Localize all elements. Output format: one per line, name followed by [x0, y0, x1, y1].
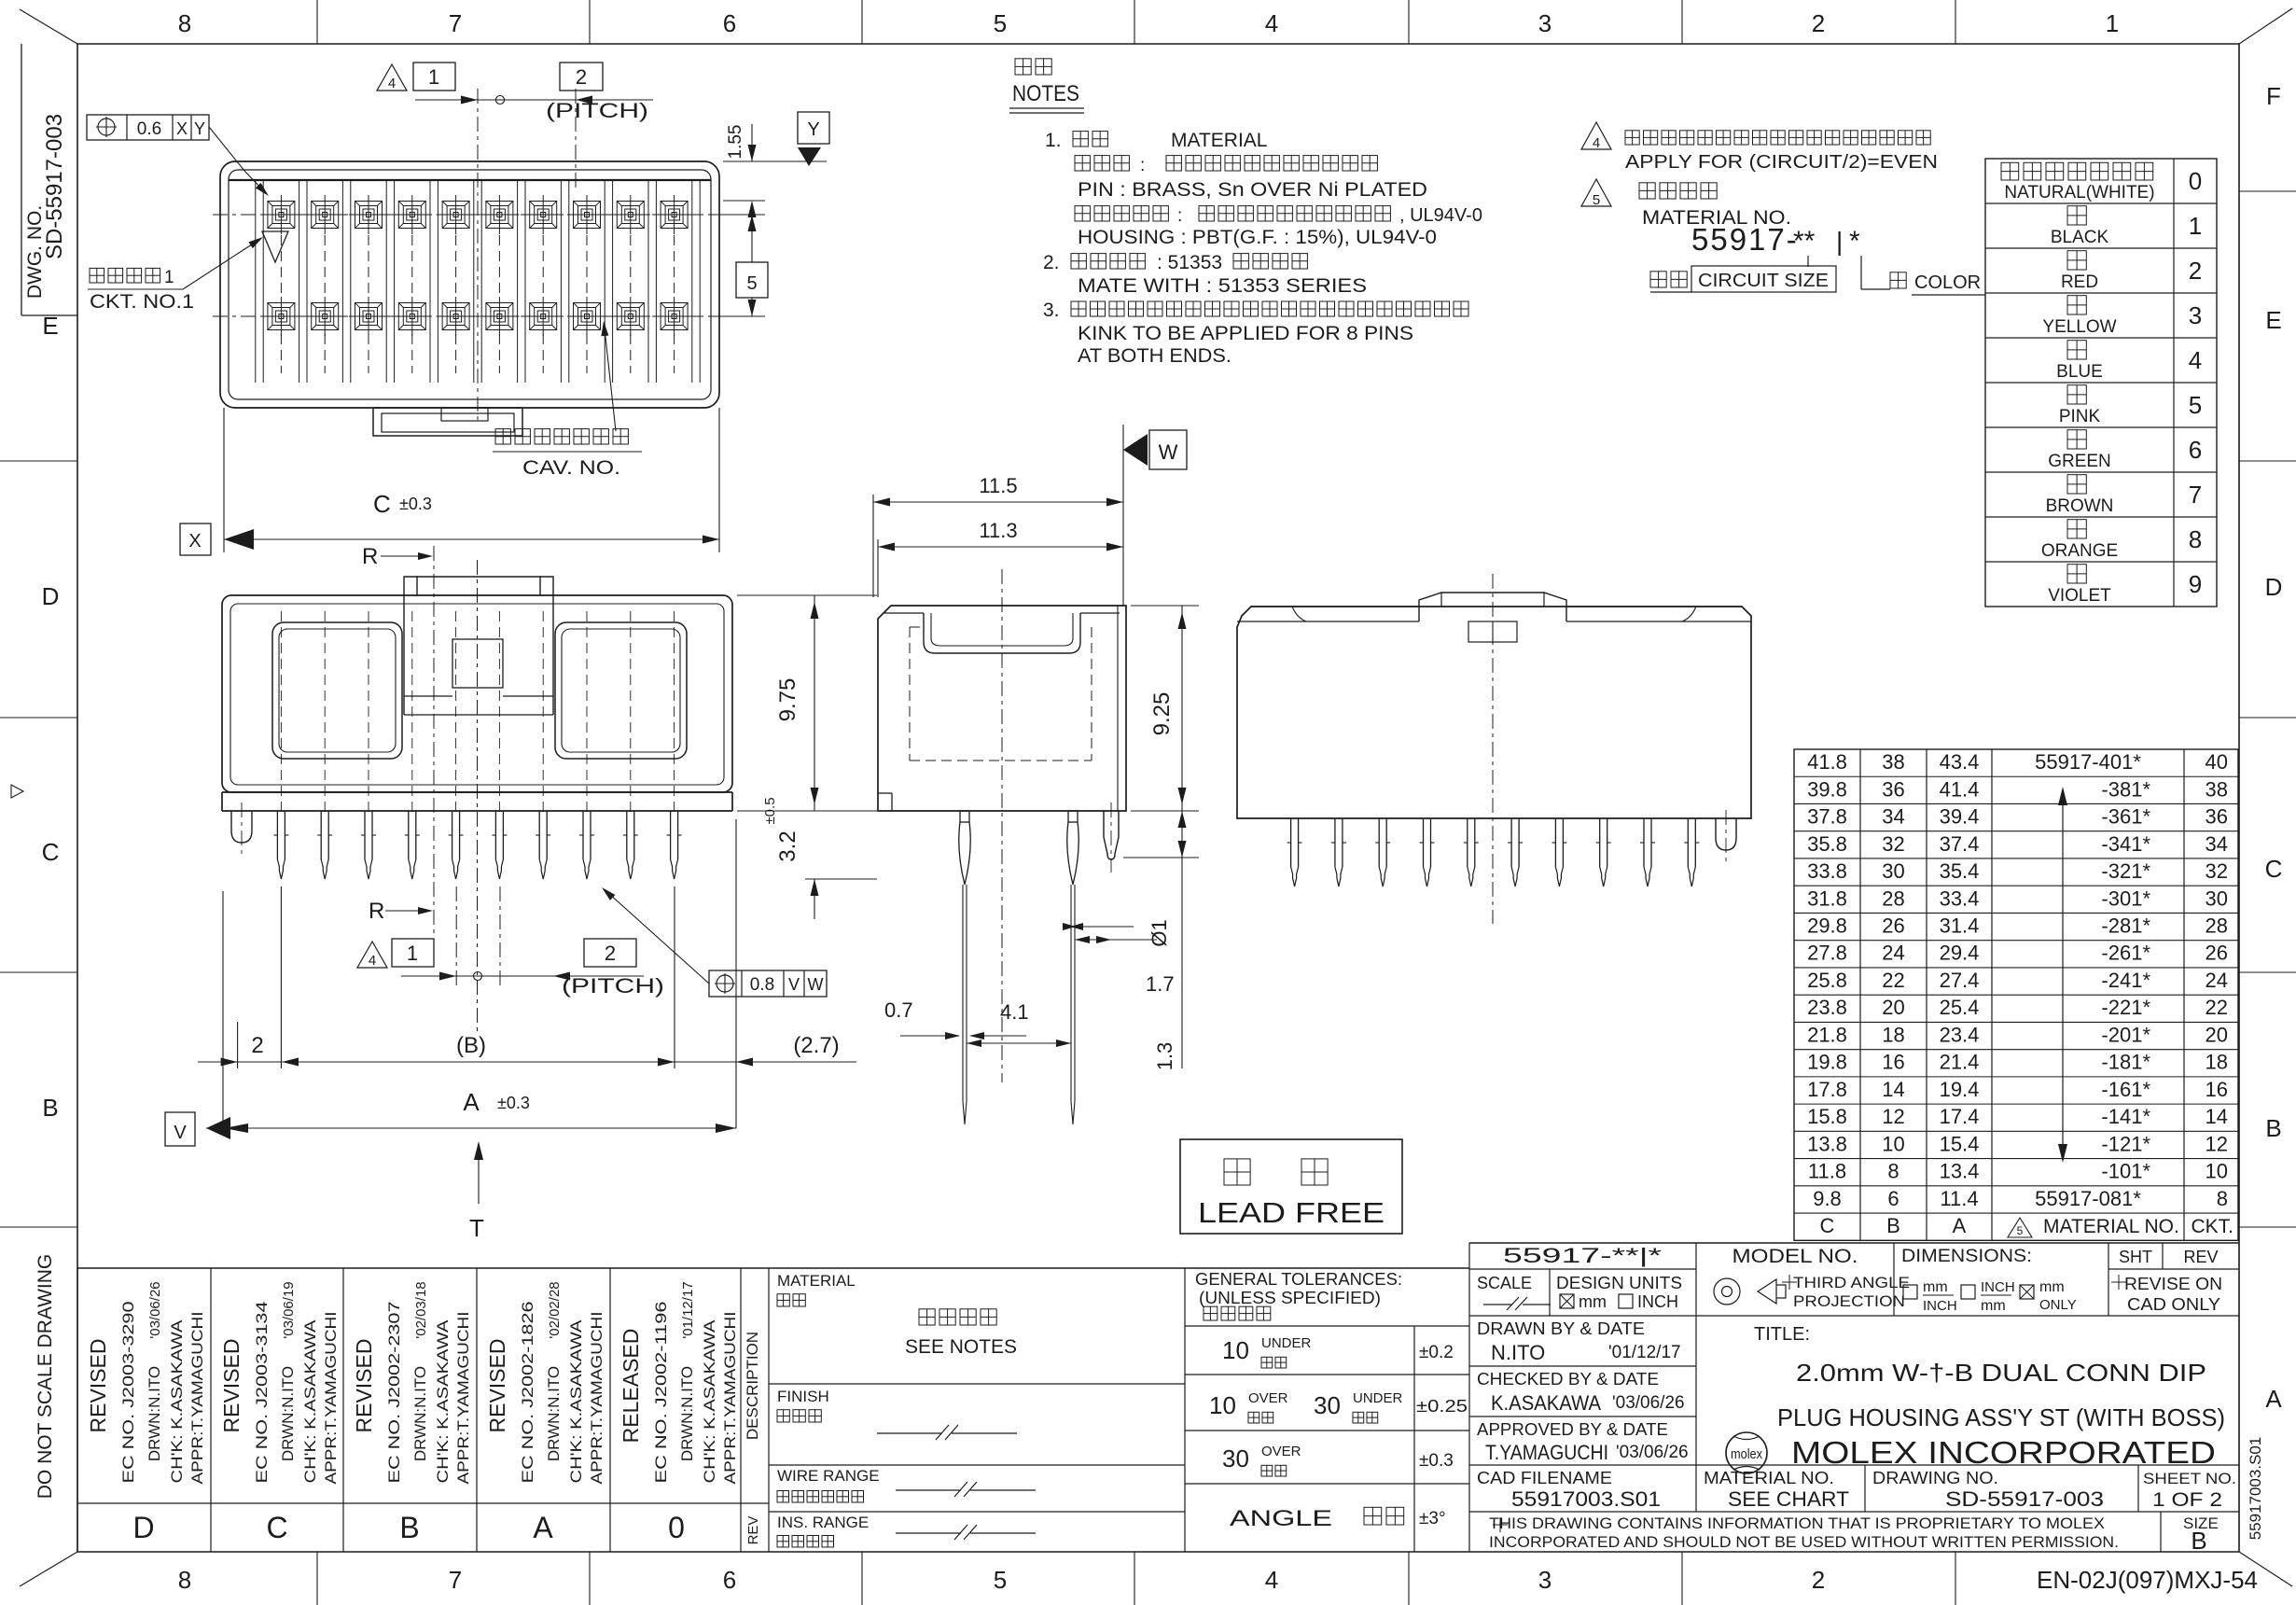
svg-text:16: 16	[1882, 1051, 1904, 1074]
top view connector body	[220, 161, 719, 408]
svg-text:33.4: 33.4	[1940, 886, 1980, 910]
svg-text:27.8: 27.8	[1807, 942, 1847, 965]
svg-text:23.8: 23.8	[1807, 996, 1847, 1019]
svg-text:CKT. NO.1: CKT. NO.1	[90, 291, 194, 313]
svg-text:30: 30	[1222, 1444, 1249, 1472]
color label	[1890, 272, 1906, 288]
svg-text:INS. RANGE: INS. RANGE	[777, 1514, 869, 1531]
svg-text:32: 32	[2206, 859, 2228, 883]
svg-text:REVISED: REVISED	[219, 1339, 244, 1433]
svg-text:41.4: 41.4	[1940, 777, 1980, 801]
svg-text:CH'K: K.ASAKAWA: CH'K: K.ASAKAWA	[567, 1319, 585, 1484]
svg-text:SHT: SHT	[2119, 1248, 2152, 1266]
svg-text:PINK: PINK	[2059, 407, 2101, 426]
svg-text:A: A	[1953, 1214, 1967, 1237]
svg-text:C: C	[42, 838, 60, 866]
svg-text:DRWN:N.ITO: DRWN:N.ITO	[411, 1366, 429, 1461]
svg-text:36: 36	[1882, 777, 1904, 801]
front view dim A ±0.3	[206, 1127, 736, 1129]
svg-text:28: 28	[2206, 914, 2228, 937]
svg-text:55917003.S01: 55917003.S01	[2247, 1437, 2264, 1541]
svg-text:BROWN: BROWN	[2046, 496, 2114, 516]
svg-text:3.: 3.	[1043, 300, 1060, 321]
zone ticks top/bottom	[316, 0, 318, 44]
svg-text:'01/12/17: '01/12/17	[1608, 1343, 1681, 1362]
svg-text:REV: REV	[745, 1516, 761, 1545]
svg-text:'02/02/28: '02/02/28	[547, 1281, 563, 1338]
svg-text:2: 2	[605, 942, 616, 965]
svg-text:±3°: ±3°	[1419, 1509, 1446, 1528]
top view dim: pitch boxes	[377, 64, 407, 91]
circuit size box	[1650, 272, 1687, 287]
svg-text:2: 2	[1812, 1566, 1825, 1594]
svg-text:4: 4	[1593, 135, 1600, 151]
svg-text:mm: mm	[1579, 1292, 1607, 1311]
side view W datum	[1149, 430, 1187, 469]
svg-text:5: 5	[994, 9, 1007, 37]
svg-text:C: C	[2265, 855, 2283, 883]
svg-text:T.YAMAGUCHI: T.YAMAGUCHI	[1485, 1441, 1608, 1464]
svg-text:22: 22	[1882, 969, 1904, 992]
svg-text:'03/06/19: '03/06/19	[281, 1281, 297, 1338]
svg-text:13.8: 13.8	[1807, 1132, 1847, 1155]
svg-text:KINK TO BE APPLIED FOR 8 PINS: KINK TO BE APPLIED FOR 8 PINS	[1078, 323, 1413, 344]
svg-text:17.8: 17.8	[1807, 1078, 1847, 1101]
svg-text:8: 8	[1887, 1160, 1899, 1183]
zone ticks left/right	[0, 460, 77, 462]
note triangle 4	[1581, 122, 1611, 149]
svg-text::: :	[1177, 206, 1182, 226]
svg-text:29.4: 29.4	[1940, 942, 1980, 965]
svg-text:-161*: -161*	[2101, 1078, 2150, 1101]
svg-text:REV: REV	[2183, 1248, 2218, 1266]
svg-text:APPR:T.YAMAGUCHI: APPR:T.YAMAGUCHI	[188, 1312, 206, 1485]
top view bottom boss	[373, 408, 522, 436]
svg-text:: 51353: : 51353	[1157, 252, 1222, 273]
svg-text:APPR:T.YAMAGUCHI: APPR:T.YAMAGUCHI	[322, 1312, 340, 1485]
svg-text:14: 14	[1882, 1078, 1904, 1101]
front view center latch tower	[404, 577, 417, 595]
svg-text:11.3: 11.3	[979, 519, 1017, 542]
front view pitch dim bottom	[357, 942, 387, 968]
svg-text:DESIGN UNITS: DESIGN UNITS	[1556, 1274, 1682, 1292]
svg-text:APPROVED BY & DATE: APPROVED BY & DATE	[1477, 1420, 1668, 1439]
svg-text:10: 10	[2206, 1160, 2228, 1183]
svg-text:INCORPORATED AND SHOULD NOT BE: INCORPORATED AND SHOULD NOT BE USED WITH…	[1489, 1533, 2119, 1551]
svg-text:10: 10	[1222, 1336, 1249, 1364]
front view cavities	[272, 622, 402, 759]
svg-text:5: 5	[746, 273, 757, 294]
svg-text:Y: Y	[807, 119, 819, 140]
svg-text:5: 5	[2017, 1224, 2024, 1237]
svg-text:DRWN:N.ITO: DRWN:N.ITO	[146, 1366, 163, 1461]
svg-text:(UNLESS SPECIFIED): (UNLESS SPECIFIED)	[1199, 1289, 1381, 1307]
svg-text:APPR:T.YAMAGUCHI: APPR:T.YAMAGUCHI	[721, 1312, 739, 1485]
svg-text:CH'K: K.ASAKAWA: CH'K: K.ASAKAWA	[168, 1319, 186, 1484]
svg-text:REVISED: REVISED	[86, 1339, 110, 1433]
note triangle 5	[1581, 179, 1611, 206]
svg-text:20: 20	[2206, 1023, 2228, 1046]
svg-text:CAD FILENAME: CAD FILENAME	[1477, 1469, 1612, 1487]
svg-text:0: 0	[668, 1511, 685, 1544]
svg-text:CH'K: K.ASAKAWA: CH'K: K.ASAKAWA	[301, 1319, 319, 1484]
svg-text:55917-081*: 55917-081*	[2035, 1187, 2141, 1210]
svg-text:3.2: 3.2	[775, 830, 800, 861]
svg-text:19.8: 19.8	[1807, 1051, 1847, 1074]
svg-text:-181*: -181*	[2101, 1051, 2150, 1074]
svg-text:23.4: 23.4	[1940, 1023, 1980, 1046]
front view dim 9.75 / 3.2	[737, 594, 877, 596]
svg-text:REVISED: REVISED	[352, 1339, 376, 1433]
svg-text:EC NO. J2002-1196: EC NO. J2002-1196	[652, 1302, 670, 1484]
svg-text:11.4: 11.4	[1940, 1187, 1978, 1210]
svg-text:V: V	[788, 975, 800, 994]
svg-text:EC NO. J2003-3134: EC NO. J2003-3134	[253, 1302, 271, 1484]
svg-text:A: A	[2265, 1385, 2282, 1413]
front view section line R-R	[433, 546, 435, 933]
svg-text:DRAWN BY & DATE: DRAWN BY & DATE	[1477, 1319, 1645, 1338]
svg-text:VIOLET: VIOLET	[2048, 586, 2111, 606]
svg-text:BLUE: BLUE	[2056, 362, 2103, 382]
svg-text:B: B	[2265, 1114, 2281, 1142]
svg-text:(PITCH): (PITCH)	[546, 99, 648, 122]
svg-text:26: 26	[2206, 942, 2228, 965]
svg-text:8: 8	[2189, 525, 2202, 553]
side view centerline	[1001, 569, 1003, 1082]
svg-text:, UL94V-0: , UL94V-0	[1399, 205, 1482, 226]
svg-text:31.8: 31.8	[1807, 886, 1847, 910]
svg-text:mm: mm	[1981, 1298, 2006, 1314]
svg-text:W: W	[1159, 440, 1178, 464]
side view boss peg	[1104, 811, 1119, 859]
svg-text:19.4: 19.4	[1940, 1078, 1980, 1101]
svg-text:RELEASED: RELEASED	[619, 1329, 643, 1444]
svg-text:4.1: 4.1	[1000, 1000, 1029, 1024]
material / finish / wire / ins block	[1184, 1268, 1186, 1552]
svg-text:THIRD ANGLE: THIRD ANGLE	[1793, 1274, 1910, 1291]
svg-text:INCH: INCH	[1637, 1292, 1678, 1311]
svg-text:5: 5	[994, 1566, 1007, 1594]
svg-text:SD-55917-003: SD-55917-003	[42, 114, 67, 259]
svg-text:(PITCH): (PITCH)	[562, 974, 664, 998]
svg-text:7: 7	[449, 1566, 462, 1594]
dim 1.55 / Y datum / 5	[723, 160, 827, 162]
svg-text:D: D	[132, 1511, 154, 1544]
svg-text:AT BOTH ENDS.: AT BOTH ENDS.	[1078, 345, 1231, 367]
svg-text:'03/06/26: '03/06/26	[1616, 1443, 1689, 1462]
svg-text:39.8: 39.8	[1807, 777, 1847, 801]
ckt no 1 triangle marker	[262, 231, 288, 262]
svg-text:CHECKED BY & DATE: CHECKED BY & DATE	[1477, 1370, 1659, 1389]
svg-text:16: 16	[2206, 1078, 2228, 1101]
front view dims 2 (B) (2.7)	[222, 891, 224, 1128]
svg-text:-261*: -261*	[2101, 942, 2150, 965]
svg-text:molex: molex	[1731, 1446, 1762, 1462]
svg-text:2.0mm W-†-B DUAL CONN DIP: 2.0mm W-†-B DUAL CONN DIP	[1796, 1359, 2206, 1387]
svg-text:55917-401*: 55917-401*	[2035, 750, 2141, 774]
svg-text:±0.3: ±0.3	[399, 495, 432, 513]
svg-text:6: 6	[723, 9, 736, 37]
svg-text:APPR:T.YAMAGUCHI: APPR:T.YAMAGUCHI	[454, 1312, 472, 1485]
svg-text:NATURAL(WHITE): NATURAL(WHITE)	[2004, 183, 2154, 202]
svg-text:ORANGE: ORANGE	[2041, 541, 2118, 561]
svg-text:B: B	[42, 1094, 58, 1122]
svg-text:4: 4	[388, 76, 396, 91]
svg-text:R: R	[369, 899, 384, 924]
svg-text:'02/03/18: '02/03/18	[413, 1281, 429, 1338]
svg-text:5: 5	[2189, 391, 2202, 419]
svg-text:MATERIAL: MATERIAL	[1171, 130, 1267, 151]
sheet frame border	[77, 43, 2239, 45]
corner diagonals	[20, 9, 77, 44]
right view pins	[1290, 818, 1292, 867]
svg-text:±0.2: ±0.2	[1419, 1343, 1454, 1362]
svg-text:N.ITO: N.ITO	[1491, 1341, 1545, 1364]
svg-text:-121*: -121*	[2101, 1132, 2150, 1155]
svg-text:1.55: 1.55	[726, 125, 745, 160]
svg-text:36: 36	[2206, 805, 2228, 829]
svg-text:COLOR: COLOR	[1914, 272, 1981, 293]
svg-text:D: D	[2265, 573, 2283, 601]
svg-text:CAV. NO.: CAV. NO.	[522, 457, 620, 479]
svg-text:2: 2	[1812, 9, 1825, 37]
svg-text:37.8: 37.8	[1807, 805, 1847, 829]
svg-text:NOTES: NOTES	[1012, 81, 1079, 106]
svg-text:15.4: 15.4	[1940, 1132, 1980, 1155]
svg-text:Y: Y	[194, 119, 205, 138]
svg-text:55917-**|*: 55917-**|*	[1503, 1244, 1663, 1267]
svg-text:MATERIAL NO.: MATERIAL NO.	[2043, 1216, 2179, 1237]
svg-text:SEE CHART: SEE CHART	[1728, 1487, 1849, 1511]
svg-text:(B): (B)	[456, 1033, 486, 1058]
svg-text:43.4: 43.4	[1940, 750, 1980, 774]
svg-text:22: 22	[2206, 996, 2228, 1019]
T arrow	[478, 1146, 480, 1204]
svg-text:ANGLE: ANGLE	[1230, 1506, 1332, 1531]
svg-text:20: 20	[1882, 996, 1904, 1019]
svg-text:BLACK: BLACK	[2051, 228, 2109, 247]
svg-text:39.4: 39.4	[1940, 805, 1980, 829]
color code table	[1985, 159, 2217, 607]
svg-text:1: 1	[2189, 212, 2202, 240]
front view pins	[276, 811, 278, 859]
svg-text:F: F	[2266, 82, 2281, 110]
right view top latch bump	[1419, 593, 1566, 621]
svg-text:8: 8	[178, 9, 191, 37]
front view pin centerlines	[280, 611, 282, 814]
svg-text:40: 40	[2206, 750, 2228, 774]
svg-text:OVER: OVER	[1248, 1390, 1288, 1406]
svg-text:±0.3: ±0.3	[497, 1094, 530, 1112]
top view centerlines	[213, 214, 728, 216]
svg-text:6: 6	[1887, 1187, 1899, 1210]
side view dim 1.7	[1075, 939, 1157, 941]
svg-text::: :	[1140, 156, 1145, 175]
svg-text:2: 2	[2189, 257, 2202, 285]
notes heading	[1015, 59, 1051, 75]
svg-text:A: A	[533, 1511, 553, 1544]
svg-text:0.6: 0.6	[137, 119, 161, 139]
svg-text:17.4: 17.4	[1940, 1105, 1980, 1128]
svg-text:SEE NOTES: SEE NOTES	[905, 1336, 1017, 1358]
svg-text:SCALE: SCALE	[1477, 1274, 1532, 1292]
svg-text:-361*: -361*	[2101, 805, 2150, 829]
svg-text:**: **	[1793, 226, 1816, 257]
svg-text:25.8: 25.8	[1807, 969, 1847, 992]
svg-text:-341*: -341*	[2101, 832, 2150, 856]
svg-text:|: |	[1836, 227, 1843, 256]
svg-text:1: 1	[428, 65, 439, 89]
svg-text:CAD ONLY: CAD ONLY	[2127, 1295, 2220, 1314]
side view dim 11.5 / 11.3	[872, 495, 874, 597]
svg-text:35.8: 35.8	[1807, 832, 1847, 856]
svg-text:1.: 1.	[1045, 130, 1062, 151]
svg-text:GREEN: GREEN	[2048, 452, 2111, 471]
svg-text:11.5: 11.5	[979, 474, 1017, 497]
svg-text:30: 30	[1882, 859, 1904, 883]
svg-text:OVER: OVER	[1261, 1444, 1301, 1459]
svg-text:1: 1	[2106, 9, 2119, 37]
svg-text:D: D	[42, 582, 60, 610]
svg-text:4: 4	[2189, 346, 2202, 374]
svg-text:32: 32	[1882, 832, 1904, 856]
svg-text:29.8: 29.8	[1807, 914, 1847, 937]
svg-text:2: 2	[576, 65, 587, 89]
svg-text:GENERAL TOLERANCES:: GENERAL TOLERANCES:	[1195, 1270, 1402, 1289]
side view dim 1.3	[1123, 857, 1199, 858]
front view body	[222, 595, 732, 792]
title block	[1469, 1242, 2239, 1244]
svg-text:11.8: 11.8	[1808, 1160, 1846, 1183]
top view cavity walls	[255, 180, 257, 383]
svg-text:EC NO. J2002-1826: EC NO. J2002-1826	[519, 1302, 536, 1484]
svg-text:A: A	[463, 1088, 480, 1116]
svg-text:THIS DRAWING CONTAINS INFORMAT: THIS DRAWING CONTAINS INFORMATION THAT I…	[1489, 1514, 2105, 1532]
svg-text:'03/06/26: '03/06/26	[1612, 1393, 1685, 1413]
top view pin squares	[268, 202, 295, 229]
svg-text:MATERIAL: MATERIAL	[777, 1272, 856, 1290]
svg-text:12: 12	[1882, 1105, 1904, 1128]
svg-text:MATERIAL NO.: MATERIAL NO.	[1704, 1469, 1834, 1487]
svg-text:1 OF 2: 1 OF 2	[2152, 1489, 2222, 1511]
svg-text:APPR:T.YAMAGUCHI: APPR:T.YAMAGUCHI	[588, 1312, 605, 1485]
svg-text:4: 4	[1265, 9, 1278, 37]
svg-text:14: 14	[2206, 1105, 2228, 1128]
svg-text:DO NOT SCALE DRAWING: DO NOT SCALE DRAWING	[35, 1254, 56, 1500]
svg-text:PLUG HOUSING ASS'Y ST (WITH BO: PLUG HOUSING ASS'Y ST (WITH BOSS)	[1777, 1403, 2225, 1431]
svg-text:±0.25: ±0.25	[1416, 1397, 1468, 1416]
svg-text:34: 34	[2206, 832, 2228, 856]
svg-text:WIRE RANGE: WIRE RANGE	[777, 1467, 880, 1485]
svg-text:10: 10	[1209, 1391, 1236, 1419]
svg-text:PROJECTION: PROJECTION	[1793, 1292, 1905, 1310]
svg-text:6: 6	[2189, 436, 2202, 464]
right view boss peg	[1716, 818, 1736, 850]
svg-text:38: 38	[2206, 777, 2228, 801]
svg-text:C: C	[266, 1511, 287, 1544]
svg-text:FINISH: FINISH	[777, 1388, 829, 1405]
ckt no 1 label	[90, 268, 160, 283]
molex logo	[1726, 1432, 1767, 1473]
svg-text:28: 28	[1882, 886, 1904, 910]
svg-text:0: 0	[2189, 167, 2202, 195]
svg-text:-281*: -281*	[2101, 914, 2150, 937]
svg-text:-221*: -221*	[2101, 996, 2150, 1019]
svg-text:DRAWING NO.: DRAWING NO.	[1872, 1469, 1998, 1487]
svg-text:CH'K: K.ASAKAWA: CH'K: K.ASAKAWA	[701, 1319, 718, 1484]
svg-text:MODEL NO.: MODEL NO.	[1732, 1246, 1858, 1267]
front view base plate	[222, 791, 732, 793]
svg-text:4: 4	[369, 953, 376, 969]
svg-text:2: 2	[251, 1033, 263, 1058]
svg-text:W: W	[808, 975, 824, 994]
svg-text:UNDER: UNDER	[1353, 1390, 1403, 1406]
svg-text:DRWN:N.ITO: DRWN:N.ITO	[678, 1366, 696, 1461]
svg-text:6: 6	[723, 1566, 736, 1594]
svg-text:55917-: 55917-	[1691, 222, 1799, 257]
svg-text:24: 24	[1882, 942, 1904, 965]
svg-text:Ø1: Ø1	[1148, 919, 1171, 946]
right view body	[1237, 607, 1751, 818]
right view corner marks	[1292, 607, 1306, 621]
svg-text:'01/12/17: '01/12/17	[680, 1281, 696, 1338]
svg-text:MOLEX INCORPORATED: MOLEX INCORPORATED	[1791, 1435, 2216, 1470]
svg-text:HOUSING : PBT(G.F. : 15%), UL9: HOUSING : PBT(G.F. : 15%), UL94V-0	[1078, 227, 1437, 248]
svg-text:1.3: 1.3	[1153, 1042, 1176, 1071]
svg-text:-321*: -321*	[2101, 859, 2150, 883]
svg-text:9.25: 9.25	[1149, 692, 1175, 736]
svg-text:-141*: -141*	[2101, 1105, 2150, 1128]
cav no label	[495, 429, 628, 444]
svg-text:-201*: -201*	[2101, 1023, 2150, 1046]
svg-text:EC NO. J2002-2307: EC NO. J2002-2307	[385, 1302, 403, 1484]
svg-text:SD-55917-003: SD-55917-003	[1945, 1487, 2104, 1511]
svg-text:R: R	[362, 544, 378, 569]
svg-text:3: 3	[2189, 301, 2202, 329]
svg-text:4: 4	[1265, 1566, 1278, 1594]
svg-text:35.4: 35.4	[1940, 859, 1980, 883]
svg-text:7: 7	[449, 9, 462, 37]
svg-text:30: 30	[1314, 1391, 1341, 1419]
svg-text:PIN : BRASS, Sn OVER Ni PLATED: PIN : BRASS, Sn OVER Ni PLATED	[1078, 179, 1427, 201]
front view left boss peg	[231, 811, 252, 843]
svg-text:55917003.S01: 55917003.S01	[1511, 1487, 1661, 1511]
top view datum feature frame 0.6 X Y	[87, 115, 209, 140]
svg-text:1.7: 1.7	[1146, 972, 1175, 996]
revision table	[77, 1267, 1469, 1269]
svg-text:E: E	[2265, 306, 2281, 334]
svg-text:CH'K: K.ASAKAWA: CH'K: K.ASAKAWA	[434, 1319, 452, 1484]
side view bottom-left step	[878, 792, 892, 794]
svg-text:41.8: 41.8	[1807, 750, 1847, 774]
svg-text:18: 18	[1882, 1023, 1904, 1046]
side view dim 9.25	[1131, 605, 1199, 607]
svg-text:18: 18	[2206, 1051, 2228, 1074]
svg-text:-241*: -241*	[2101, 969, 2150, 992]
side view body	[878, 606, 1126, 811]
svg-text:DESCRIPTION: DESCRIPTION	[744, 1332, 761, 1440]
svg-text:mm: mm	[1923, 1279, 1948, 1295]
table range arrow	[2062, 795, 2064, 1154]
svg-text:ONLY: ONLY	[2039, 1297, 2077, 1313]
svg-text:V: V	[174, 1123, 187, 1143]
svg-text:B: B	[1886, 1214, 1900, 1237]
svg-text:1: 1	[164, 268, 174, 287]
svg-text:2.: 2.	[1043, 252, 1060, 273]
svg-text:'03/06/26: '03/06/26	[147, 1281, 163, 1338]
svg-text:*: *	[1849, 226, 1860, 257]
svg-text:RED: RED	[2061, 272, 2098, 292]
